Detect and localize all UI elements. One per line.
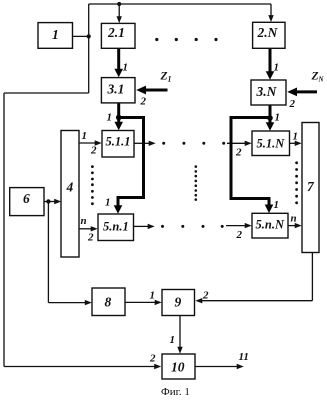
- wire: block 5.n.1 output arrow toward ellipsis: [134, 224, 155, 229]
- svg-text:5.n.1: 5.n.1: [103, 220, 129, 234]
- block 5.n.1: [98, 214, 134, 241]
- wire: arrow into block 5.n.N input: [226, 223, 252, 228]
- svg-text:1: 1: [123, 62, 129, 74]
- svg-text:n: n: [291, 213, 297, 225]
- wire: arrow down into block 2.N: [268, 4, 273, 22]
- svg-text:2: 2: [236, 229, 243, 241]
- wire: block 1 output to top bus junction: [73, 35, 89, 37]
- wire: block 8 output into block 9 input 1: [125, 300, 162, 305]
- svg-text:2: 2: [289, 98, 296, 110]
- wire: feedback from bus down left edge into block 10 input 2: [4, 93, 161, 369]
- svg-text:5.1.1: 5.1.1: [106, 135, 131, 149]
- block 10: [162, 354, 195, 379]
- block 9: [162, 290, 195, 316]
- block 5.1.1: [102, 131, 134, 158]
- svg-text:6: 6: [23, 191, 30, 206]
- wire: block 6 output to block 4: [44, 199, 61, 204]
- wire: block 5.1.1 output arrow toward ellipsis: [134, 141, 156, 146]
- block 2.1: [101, 23, 135, 48]
- thick wire: block 3.N down to block 5.1.N input 1 with branch junction: [266, 105, 275, 131]
- wire: block 4 output 1 into block 5.1.1: [79, 140, 102, 145]
- block 6: [10, 188, 44, 216]
- wire: arrow into block 5.1.N input: [227, 141, 252, 146]
- svg-text:n: n: [81, 215, 87, 227]
- thick wire: branch left-down-right into block 5.n.N input 1: [231, 118, 273, 214]
- svg-text:2.1: 2.1: [107, 25, 125, 40]
- svg-text:3.N: 3.N: [256, 84, 278, 99]
- svg-text:1: 1: [105, 197, 111, 209]
- block 1: [38, 23, 73, 49]
- block 3.N: [251, 80, 286, 105]
- block 8: [92, 288, 125, 316]
- svg-text:9: 9: [175, 295, 182, 310]
- svg-text:1: 1: [293, 131, 299, 143]
- wire: block 9 output down into block 10 input 1: [177, 316, 182, 354]
- thick wire: branch right-down-left into block 5.n.1 input 1: [114, 118, 144, 214]
- block 2.N: [253, 22, 285, 48]
- wire: block 5.n.N output into block 7: [288, 223, 302, 228]
- svg-text:2: 2: [149, 353, 156, 365]
- wire: block 4 output n into block 5.n.1: [79, 226, 98, 231]
- wire: arrow down into block 2.1: [117, 4, 122, 23]
- svg-text:Фиг. 1: Фиг. 1: [161, 386, 190, 398]
- junction dot on top bus above block 2.1: [117, 2, 121, 6]
- junction dot on thick line above 5.1.1: [116, 115, 122, 121]
- ellipsis dots row between 5.n.1 and 5.n.N: [161, 225, 224, 228]
- ellipsis dots row on top bus between 2.1 and 2.N: [155, 38, 217, 41]
- wire: vertical bus segment left of block 2.1: [88, 4, 90, 93]
- svg-text:5.1.N: 5.1.N: [257, 137, 286, 151]
- svg-text:2: 2: [140, 96, 147, 108]
- thick wire: ZN input arrow into block 3.N input 2: [287, 88, 317, 97]
- svg-text:1: 1: [274, 199, 280, 211]
- svg-text:2.N: 2.N: [257, 25, 279, 40]
- thick wire: block 3.1 down to block 5.1.1 input 1 with branch junction: [114, 103, 123, 130]
- wire: top horizontal bus: [89, 3, 271, 5]
- wire: block 10 output arrow 11: [195, 364, 244, 369]
- thick wire: block 2.1 to block 3.1 input 1: [114, 48, 123, 77]
- junction dot on thick line above 5.1.N: [267, 115, 273, 121]
- thick wire: block 2.N to block 3.N input 1: [266, 48, 275, 80]
- wire: block 6 output down and right into block 8: [48, 202, 91, 306]
- junction dot at block 1 output tee: [87, 34, 91, 38]
- svg-text:8: 8: [105, 295, 112, 310]
- ellipsis dots column left of block 7: [295, 161, 298, 204]
- wire: block 5.1.N output into block 7: [290, 141, 302, 146]
- svg-text:5.n.N: 5.n.N: [256, 218, 285, 232]
- svg-text:2: 2: [202, 290, 209, 302]
- ellipsis dots row between 5.1.1 and 5.1.N: [162, 142, 225, 145]
- svg-text:1: 1: [107, 112, 113, 124]
- svg-text:2: 2: [90, 145, 97, 157]
- svg-text:1: 1: [274, 62, 280, 74]
- svg-text:2: 2: [87, 232, 94, 244]
- block 3.1: [101, 78, 135, 103]
- block 5.1.N: [252, 131, 290, 156]
- svg-text:10: 10: [171, 360, 185, 375]
- svg-text:1: 1: [52, 27, 59, 42]
- svg-text:1: 1: [82, 130, 88, 142]
- block 7: [302, 123, 319, 253]
- ellipsis dots column page centre: [195, 165, 198, 201]
- svg-text:3.1: 3.1: [107, 82, 125, 97]
- block 4: [61, 131, 79, 258]
- svg-text:1: 1: [170, 334, 176, 346]
- thick wire: Z1 input arrow into block 3.1 input 2: [136, 86, 167, 95]
- junction dot at block 6 output: [46, 199, 50, 203]
- ellipsis dots column right of block 4: [91, 165, 94, 205]
- block 5.n.N: [252, 213, 288, 238]
- svg-text:1: 1: [275, 112, 281, 124]
- svg-text:4: 4: [66, 180, 74, 195]
- svg-text:2: 2: [235, 147, 242, 159]
- svg-text:11: 11: [239, 351, 249, 363]
- svg-text:1: 1: [150, 290, 156, 302]
- wire: block 7 output down and left into block 9 input 2: [195, 253, 312, 304]
